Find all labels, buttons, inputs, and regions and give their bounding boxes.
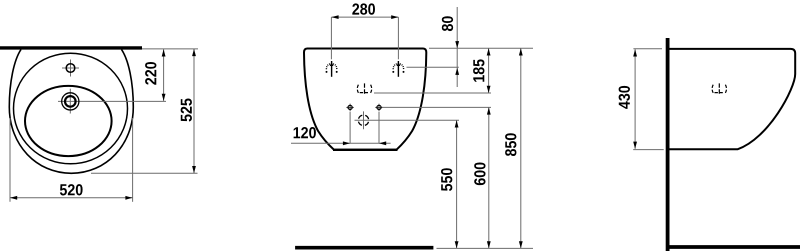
dimension 120 left ext bbox=[349, 112, 351, 144]
drain extension to right bbox=[373, 119, 460, 121]
overflow symbol (dashed, side view) bbox=[712, 83, 726, 95]
tap fixing circle left bbox=[346, 104, 353, 111]
drain inner circle bbox=[65, 96, 76, 107]
dimension 430 line bbox=[634, 49, 636, 149]
floor line right view (thick) bbox=[666, 245, 800, 249]
dimension 525 label bbox=[181, 99, 192, 122]
dimension 520 left extension bbox=[9, 118, 11, 202]
dimension 520 arrow left bbox=[10, 196, 17, 200]
tap hole bbox=[66, 64, 75, 73]
overflow symbol (dashed) bbox=[357, 83, 371, 95]
dimension 520 right extension bbox=[132, 118, 134, 202]
basin front outline bbox=[304, 49, 426, 150]
overflow extension to right bbox=[374, 92, 491, 94]
dimension 525 arrow up bbox=[192, 49, 196, 56]
dimension 185 label bbox=[473, 59, 484, 81]
dimension 185 arrow up bbox=[487, 48, 491, 55]
dimension 120 label bbox=[294, 127, 316, 138]
top extension line bbox=[142, 48, 198, 50]
dimension 430 arrow up bbox=[633, 49, 637, 56]
dimension 80 arrow down bbox=[455, 41, 459, 48]
dimension 430 arrow down bbox=[633, 142, 637, 149]
fixing hole right bbox=[392, 61, 404, 77]
dimension 80 upper shaft bbox=[456, 7, 458, 87]
dimension 520 label bbox=[60, 184, 83, 195]
fixing hole left bbox=[326, 61, 338, 77]
dimension 120 arrow left-pointing bbox=[379, 141, 386, 145]
dimension 600 arrow up bbox=[487, 107, 491, 114]
dimension 430 bottom extension bbox=[633, 149, 664, 151]
dimension 850 line bbox=[520, 48, 522, 248]
dimension 520 line bbox=[10, 197, 133, 199]
dimension 550 arrow up bbox=[455, 120, 459, 127]
dimension 430 top extension bbox=[633, 48, 662, 50]
tap fixing circle right bbox=[375, 104, 382, 111]
drain crosshair / extension to 220 dim bbox=[58, 100, 166, 102]
dimension 185 line bbox=[488, 48, 490, 93]
dimension 280 arrow left bbox=[331, 15, 338, 19]
dimension 600 arrow down bbox=[487, 241, 491, 248]
basin bottom edge (thicker) bbox=[333, 149, 398, 151]
floor line (thick) bbox=[295, 246, 433, 250]
dimension 525 line bbox=[193, 49, 195, 173]
dimension 120 right ext bbox=[378, 112, 380, 144]
dimension 220 label bbox=[145, 62, 156, 85]
dimension 80 label bbox=[442, 16, 453, 31]
dimension 850 label bbox=[505, 133, 516, 156]
wall line (thick) bbox=[0, 46, 142, 49]
tap hole crosshair bbox=[62, 67, 79, 69]
dimension 850 arrow up bbox=[519, 48, 523, 55]
side profile outline bbox=[670, 49, 796, 149]
fixing holes extension to right bbox=[407, 66, 459, 68]
dimension 120 arrow right-pointing bbox=[343, 141, 350, 145]
drain centre (dashed circle with crosshair) bbox=[355, 111, 373, 129]
basin inner rim circle bbox=[14, 53, 128, 164]
dimension 550 line bbox=[456, 120, 458, 248]
dimension 850 arrow down bbox=[519, 241, 523, 248]
dimension 280 arrow right bbox=[391, 15, 398, 19]
dimension 220 arrow down bbox=[162, 94, 166, 101]
top edge extension to right bbox=[429, 47, 533, 49]
basin outer outline bbox=[9, 49, 133, 173]
dimension 280 right extension bbox=[397, 17, 399, 59]
dimension 550 label bbox=[441, 168, 452, 191]
dimension 600 line bbox=[488, 107, 490, 248]
dimension 525 arrow down bbox=[192, 166, 196, 173]
dimension 280 label bbox=[352, 3, 375, 14]
wall line (thick vertical) bbox=[666, 38, 670, 251]
floor extension line (thin) bbox=[437, 247, 534, 249]
bottom extension line (basin bottom) bbox=[91, 172, 198, 174]
dimension 520 arrow right bbox=[125, 196, 132, 200]
dimension 280 left extension bbox=[330, 17, 332, 59]
dimension 185 arrow down bbox=[487, 86, 491, 93]
dimension 220 arrow up bbox=[162, 49, 166, 56]
bowl ellipse bbox=[25, 86, 112, 156]
dimension 550 arrow down bbox=[455, 241, 459, 248]
dimension 220 line bbox=[163, 49, 165, 101]
dimension 80 arrow up bbox=[455, 68, 459, 75]
drain outer circle bbox=[62, 93, 79, 110]
tap circles extension to right bbox=[382, 106, 491, 108]
dimension 430 label bbox=[619, 86, 630, 109]
dimension 280 line bbox=[331, 16, 398, 18]
dimension 120 line bbox=[291, 142, 391, 144]
dimension 600 label bbox=[474, 163, 485, 186]
